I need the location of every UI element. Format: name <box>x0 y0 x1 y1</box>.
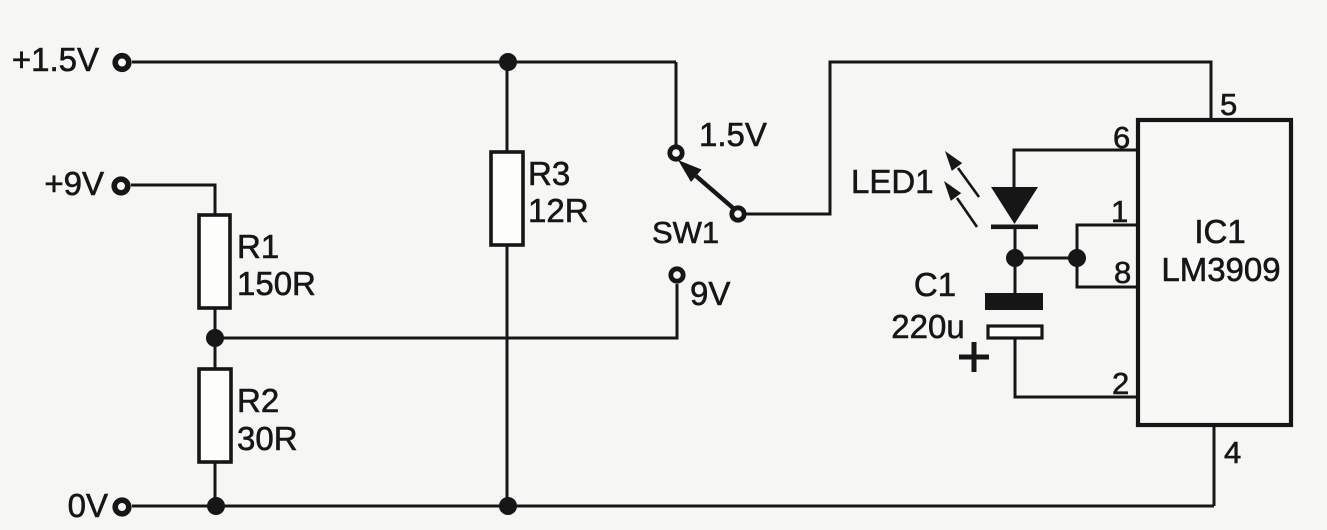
svg-text:220u: 220u <box>891 308 964 345</box>
terminal 0V <box>115 500 129 514</box>
wire top to R3 <box>506 62 509 152</box>
wire SW1 pole to IC pin5 <box>746 62 1211 214</box>
SW1 pole <box>732 208 744 220</box>
SW1 contact 9V <box>671 269 683 281</box>
svg-text:R2: R2 <box>237 382 279 419</box>
wire bottom rail <box>132 505 1214 508</box>
svg-text:LED1: LED1 <box>851 163 934 200</box>
svg-text:9V: 9V <box>690 275 730 312</box>
capacitor C1 plate bottom <box>988 326 1042 338</box>
svg-text:6: 6 <box>1113 120 1130 155</box>
resistor R1 <box>199 215 230 308</box>
wire R3 to 0V rail <box>506 245 509 506</box>
svg-text:12R: 12R <box>528 192 589 229</box>
wire top to SW1 1.5V contact <box>675 62 678 145</box>
svg-text:30R: 30R <box>237 420 298 457</box>
wire LED cathode to node <box>1014 229 1017 258</box>
svg-text:1.5V: 1.5V <box>699 116 767 153</box>
wire +9V to R1 <box>131 185 215 215</box>
IC1 LM3909 body <box>1138 120 1291 425</box>
wire R1 to node <box>214 308 217 338</box>
svg-text:2: 2 <box>1112 366 1129 401</box>
svg-text:150R: 150R <box>237 265 316 302</box>
svg-text:R1: R1 <box>237 228 279 265</box>
svg-text:+1.5V: +1.5V <box>12 41 99 78</box>
svg-text:8: 8 <box>1114 255 1131 290</box>
capacitor C1 plate top <box>985 293 1043 310</box>
junction bottom R3 <box>499 497 517 515</box>
LED1 arrow 1 <box>945 151 979 197</box>
wire node to R2 <box>214 338 217 369</box>
junction bottom R2 <box>207 497 225 515</box>
svg-text:IC1: IC1 <box>1194 213 1245 250</box>
resistor R3 <box>491 152 523 245</box>
wire IC pin4 to 0V rail <box>1213 425 1216 506</box>
wire node to C1 <box>1014 258 1017 293</box>
SW1 contact 1.5V <box>670 147 682 159</box>
LED1 arrow 2 <box>944 181 977 227</box>
node junction R1/R2 <box>206 329 224 347</box>
svg-text:0V: 0V <box>68 487 108 524</box>
wire node to node pin1/8 <box>1015 257 1077 260</box>
terminal +9V <box>114 179 128 193</box>
svg-text:LM3909: LM3909 <box>1161 251 1280 288</box>
terminal +1.5V <box>115 56 129 70</box>
svg-text:1: 1 <box>1111 194 1128 229</box>
wire R2 to 0V rail <box>214 462 217 506</box>
svg-text:SW1: SW1 <box>652 215 719 250</box>
svg-text:5: 5 <box>1220 87 1237 122</box>
wire C1 to IC pin2 <box>1015 338 1138 397</box>
wire top rail left <box>132 61 676 64</box>
wire node to IC pin8 <box>1077 258 1138 287</box>
svg-text:R3: R3 <box>528 155 570 192</box>
junction top R3 <box>499 53 517 71</box>
svg-text:C1: C1 <box>914 266 956 303</box>
SW1 blade with arrow <box>678 160 733 208</box>
svg-text:+9V: +9V <box>44 165 104 202</box>
plus polarity mark <box>959 342 989 372</box>
node LED/C1 <box>1006 249 1024 267</box>
svg-text:4: 4 <box>1224 435 1241 470</box>
LED1 diode <box>991 187 1038 229</box>
wire IC pin6 to LED anode <box>1014 150 1138 187</box>
node pin1/8 <box>1068 249 1086 267</box>
wire node to SW1 9V contact <box>215 284 677 338</box>
wire node to IC pin1 <box>1077 225 1138 258</box>
resistor R2 <box>199 369 231 462</box>
